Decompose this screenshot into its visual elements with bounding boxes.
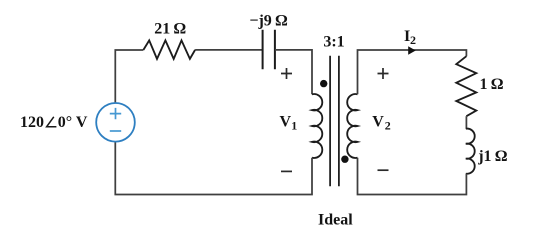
V1 plus sign bbox=[281, 68, 292, 79]
svg-text:21 Ω: 21 Ω bbox=[154, 21, 186, 38]
capacitor C -j9ohm plates bbox=[263, 30, 275, 69]
voltage source VS circle bbox=[96, 103, 135, 142]
V2 plus sign bbox=[378, 68, 389, 79]
svg-text:−j9 Ω: −j9 Ω bbox=[249, 12, 288, 29]
voltage source minus bbox=[110, 130, 121, 132]
angle symbol bbox=[47, 117, 57, 127]
transformer core lines bbox=[330, 56, 339, 187]
svg-text:3:1: 3:1 bbox=[323, 34, 344, 51]
svg-text:V: V bbox=[280, 113, 292, 130]
voltage source plus bbox=[110, 108, 121, 119]
inductor L j1ohm bbox=[466, 129, 475, 174]
transformer primary dot bbox=[320, 80, 327, 87]
svg-text:1 Ω: 1 Ω bbox=[480, 76, 504, 93]
resistor R 1ohm vertical zigzag bbox=[456, 56, 476, 116]
wire: secondary bottom bbox=[358, 158, 467, 195]
wire: primary top-left segment (source top to resistor) bbox=[115, 50, 143, 103]
V1 minus sign bbox=[281, 170, 292, 172]
transformer secondary winding L2 bbox=[347, 94, 357, 158]
svg-text:j1 Ω: j1 Ω bbox=[477, 148, 508, 165]
wire: primary bottom stub bbox=[115, 142, 312, 195]
svg-text:0° V: 0° V bbox=[58, 114, 88, 131]
wire: resistor to capacitor bbox=[195, 49, 263, 51]
wire: resistor to inductor stub bbox=[465, 116, 467, 129]
svg-text:120: 120 bbox=[20, 114, 44, 131]
wire: capacitor to transformer primary bbox=[275, 50, 312, 94]
svg-text:2: 2 bbox=[410, 33, 416, 47]
svg-text:1: 1 bbox=[291, 118, 297, 132]
transformer primary winding L1 bbox=[312, 94, 322, 158]
transformer secondary dot bbox=[341, 156, 348, 163]
V2 minus sign bbox=[378, 169, 389, 171]
svg-text:Ideal: Ideal bbox=[318, 211, 353, 228]
svg-text:V: V bbox=[372, 113, 384, 130]
current arrow I2 bbox=[408, 46, 416, 55]
wire: secondary top bbox=[358, 50, 467, 94]
svg-text:2: 2 bbox=[385, 118, 391, 132]
resistor R 21ohm zigzag bbox=[143, 40, 195, 59]
